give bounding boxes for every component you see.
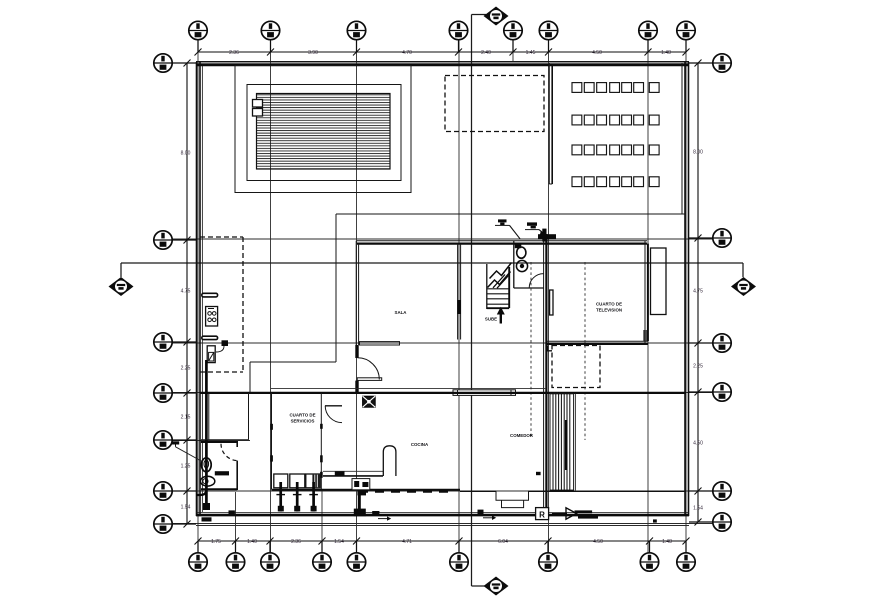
svg-text:2.25: 2.25 [693,364,703,370]
grid bubble top-3 [347,21,365,39]
washer box 3 hatch [312,475,319,488]
east boundary wall [684,62,686,516]
right dim tick y=343 [695,340,702,347]
svg-text:4.70: 4.70 [402,50,412,56]
stair break zigzag 1 [488,272,511,288]
svg-text:1.45: 1.45 [526,50,536,56]
sala west wall jamb [355,345,358,358]
grid bubble right-3 [713,334,731,352]
top dim tick x=513 [510,49,517,56]
svg-text:TELEVISION: TELEVISION [596,308,622,313]
svg-text:2.36: 2.36 [229,50,239,56]
wall cap y=184 [549,183,552,185]
servicio east wall [320,393,322,490]
servicio door arc [325,406,342,423]
west conduit elbow [196,490,206,495]
grid bubble bot-4 [313,553,331,571]
left dim tick y=393 [184,390,191,397]
black mark below bath wall [202,517,212,521]
svg-text:8.00: 8.00 [181,151,191,157]
grid bubble right-4 [713,383,731,401]
bathroom mid door arc [529,274,543,288]
grid bubble left-6 [154,482,172,500]
svg-text:R: R [539,511,545,520]
tv room east wall [644,241,646,344]
closet west wall [208,393,210,440]
dashed overhang top-center [445,76,544,132]
grid bubble top-8 [677,21,695,39]
svg-text:6.04: 6.04 [498,539,508,545]
closet east wall [248,393,250,440]
section marker diamond left [109,277,134,296]
bathroom counter bar [215,471,229,475]
west boundary wall [196,62,198,516]
kitchen shelf lower [202,336,218,339]
west conduit pipe [205,360,208,508]
stair SE east edge [574,394,576,491]
svg-text:4.50: 4.50 [593,539,603,545]
lamp leader 1 [510,225,521,239]
top dim tick x=648 [645,49,652,56]
grid bubble bot-7 [539,553,557,571]
horizontal grid line 2 (y=239) [172,238,713,240]
section marker diamond bottom [484,577,509,596]
bathroom mid sink [516,260,527,271]
porch line y=214 [336,213,686,215]
svg-text:CUARTO DE: CUARTO DE [289,413,315,418]
section cut bottom leg [472,585,487,587]
cocina counter edge [323,470,383,472]
dashed patio mid-right [552,346,600,388]
left dim tick y=491 [184,488,191,495]
right dim tick y=522 [695,519,702,526]
grid bubble right-1 [713,54,731,72]
sube arrow [500,313,502,324]
dashed patio corner bracket [548,346,553,351]
bottom dim tick x=198 [195,538,202,545]
top dim tick x=198 [195,49,202,56]
panel conduit [358,495,361,511]
patio outer rectangle [235,66,411,193]
wall x=250 segment [249,362,251,392]
grid bubble left-7 [154,515,172,533]
svg-text:1.75: 1.75 [211,539,221,545]
bottom dim tick x=649.5 [646,538,653,545]
lamp symbol 1 [498,219,507,222]
vertical grid stub (x=322 bottom) [321,490,323,552]
section marker diamond right [731,277,756,296]
grid bubble left-4 [154,384,172,402]
right dim tick y=238 [695,235,702,242]
bathroom sw south wall [201,488,237,490]
servicio south wall [272,489,461,491]
svg-text:SUBE: SUBE [485,317,497,322]
vertical grid line A (x=198) [197,40,199,552]
svg-text:SERVICIOS: SERVICIOS [291,419,315,424]
drain pipe 1 [279,482,282,512]
tee symbol left [172,441,179,444]
vertical grid line F (x=548) [548,40,550,552]
washer box 2 [290,474,305,488]
top dim tick x=458.5 [455,49,462,56]
top dim tick x=686 [683,49,690,56]
svg-text:CUARTO DE: CUARTO DE [596,302,622,307]
beam bar [453,390,516,396]
projection dashed line x=585 [584,262,586,440]
bathroom mid south wall [514,287,544,289]
cocina peninsula [383,446,396,476]
horizontal grid stub left (y=440.5) [172,440,250,442]
vertical grid line H (x=686) [685,40,687,552]
grid bubble bot-1 [189,553,207,571]
cocina outlet bar [335,471,345,475]
bottom dim tick x=235.5 [232,538,239,545]
walk arrow west [478,510,484,514]
svg-text:4.50: 4.50 [592,50,602,56]
grid bubble bot-8 [640,553,658,571]
tv room door leaf [550,290,553,315]
stair bottom edge [487,307,509,309]
svg-text:COCINA: COCINA [411,442,429,447]
water heater [207,346,215,363]
sala west wall [355,241,357,358]
mid wall thick [200,392,686,394]
stair SE dark rail [565,420,567,470]
dashed overhang west [200,236,243,238]
walk arrow mid [372,511,379,515]
grid bubble bot-3 [261,553,279,571]
grid bubble bot-2 [226,553,244,571]
patio middle rectangle [247,85,401,181]
bottom dim tick x=459 [456,538,463,545]
grid bubble top-4 [449,21,467,39]
vertical grid line C (x=356) [356,40,358,552]
bathroom sw east wall [236,442,238,447]
big arrow [552,513,567,515]
svg-text:2.25: 2.25 [181,366,191,372]
stair SE stripes [553,394,570,491]
junction box center cross [542,229,546,242]
stair break zigzag 2 [490,263,512,279]
bathroom sw toilet [201,458,211,472]
stair right rail [508,267,510,308]
svg-text:8.00: 8.00 [693,150,703,156]
wall x=336 segment [335,214,337,362]
wall y=362 segment [250,361,336,363]
sala door leaf [357,378,382,381]
section marker diamond top [484,7,509,26]
svg-text:2.36: 2.36 [291,539,301,545]
mid wall thin line [271,387,546,389]
grid bubble top-1 [189,21,207,39]
drain pipe 3 [312,482,315,512]
vertical grid line E stub (x=513) [512,40,514,62]
grid bubble right-2 [713,229,731,247]
washer box 1 [274,474,288,488]
tv room closet [651,248,667,315]
horizontal grid line 5 (y=491) [172,490,713,492]
svg-text:1.48: 1.48 [662,539,672,545]
sala door arc [358,358,380,380]
sidewalk line south [196,525,689,527]
top dimension line [198,51,686,53]
wall x=549 upper segment [548,63,550,184]
lamp symbol 2 [527,222,537,225]
comedor south wall [460,490,496,492]
svg-text:COMEDOR: COMEDOR [510,433,534,438]
tiny mark east [653,519,657,522]
left dim tick y=240 [184,237,191,244]
section cut line horizontal (y=263) [121,262,743,264]
svg-text:1.54: 1.54 [181,505,191,511]
section stem left diamond [120,263,122,277]
vertical grid stub (x=235 bottom) [235,492,237,552]
bathroom sw door arc dashed [221,444,238,461]
west conduit blob [203,503,210,510]
drain pipe caps [276,494,318,496]
svg-text:1.40: 1.40 [247,539,257,545]
comedor glass sill dashes [359,490,455,492]
grid bubble top-6 [539,21,557,39]
junction leader [216,346,224,352]
bubble stems [172,40,712,553]
servicio door leaf [325,405,342,407]
comedor west wall [457,244,459,340]
svg-text:4.75: 4.75 [181,289,191,295]
svg-text:2.15: 2.15 [181,415,191,421]
svg-text:1.48: 1.48 [661,50,671,56]
svg-text:3.90: 3.90 [308,50,318,56]
right dim tick y=63 [695,60,702,67]
bathroom mid west wall [513,241,515,288]
right dim tick y=392 [695,389,702,396]
right dim tick y=491 [695,488,702,495]
hatch edge ladder symbol [253,100,263,108]
east inner wall line [681,63,683,214]
stair treads [487,289,509,304]
pergola squares grid [572,83,659,187]
svg-text:1.25: 1.25 [181,464,191,470]
vertical grid line G (x=648) [647,40,649,552]
grid bubble bot-6 [450,553,468,571]
grid bubble left-1 [154,54,172,72]
electrical panel [352,479,370,490]
sala west wall jamb lower [355,381,358,393]
horizontal grid line 3 (y=343) [172,342,713,344]
horizontal grid line 6 (y=523.5) [172,523,713,525]
stair SE bottom [550,489,574,491]
bottom dim tick x=270 [267,538,274,545]
left dim tick y=440 [184,437,191,444]
bottom dim tick x=686 [683,538,690,545]
stair SE frame [550,394,574,491]
black square on south wall [229,510,235,514]
north boundary wall [196,61,689,63]
grid bubble top-7 [639,21,657,39]
projection dashed line x=531 [530,262,532,438]
svg-text:1.54: 1.54 [693,506,703,512]
south boundary wall [196,512,689,514]
kitchen shelf upper [202,293,218,297]
arrow bars [575,510,593,513]
drain pipe 2 [296,482,299,512]
R box [536,508,549,520]
entry step outer [496,491,529,500]
grid bubble left-3 [154,333,172,351]
comedor west wall jamb [457,300,461,314]
svg-text:4.50: 4.50 [693,441,703,447]
bottom dimension line [198,540,686,542]
fan box symbol [363,396,376,407]
panel conduit blob [354,509,366,517]
left dim tick y=524 [184,521,191,528]
svg-text:2.40: 2.40 [481,50,491,56]
top dim tick x=548.5 [545,49,552,56]
bathroom sw north wall [201,441,238,443]
closet south wall [201,439,249,441]
lamp leader 2 [539,230,544,234]
sala south half wall [360,342,400,345]
svg-text:1.54: 1.54 [334,539,344,545]
bottom dim tick x=356.5 [353,538,360,545]
svg-text:4.71: 4.71 [402,539,412,545]
stair break zigzag 3 [493,275,509,289]
left dim tick y=63 [184,60,191,67]
bottom dim tick x=322 [319,538,326,545]
bathroom mid toilet [517,247,526,258]
vertical grid line D (x=459) [458,40,460,552]
grid bubble left-5 [154,431,172,449]
grid bubble top-2 [261,21,279,39]
junction box west [222,340,229,346]
section stem right diamond [742,263,744,277]
rooms north wall [357,240,647,242]
left dim tick y=342 [184,339,191,346]
grid bubble bot-5 [347,553,365,571]
svg-text:SALA: SALA [395,310,408,315]
grid bubble top-5 [504,21,522,39]
bathroom sw sink [200,476,214,486]
kitchen stove [206,307,218,327]
top dim tick x=356.5 [353,49,360,56]
left dimension line [186,63,188,524]
top dim tick x=270.5 [267,49,274,56]
right dimension line [697,63,699,522]
horizontal grid line 4 (y=392.5) [172,392,713,394]
tv room corner jog [643,330,645,341]
grid bubble right-6 [713,513,731,531]
black mark west of wall [536,472,541,475]
horizontal grid line 1 (y=63) [172,62,713,64]
servicio west wall [271,393,273,490]
stair left rail [486,264,488,309]
entry step inner [502,500,524,507]
panel drop [357,490,366,495]
section cut line top leg [472,14,487,16]
central wall [543,234,545,513]
west wall inner line [201,66,203,512]
grid bubble bot-9 [677,553,695,571]
section cut line vertical (x=471.5) [471,15,473,587]
grid bubble right-5 [713,482,731,500]
tv room south wall [546,340,648,342]
bottom dim tick x=548 [545,538,552,545]
washer box 3 [306,474,320,488]
svg-text:4.75: 4.75 [693,289,703,295]
grid bubble left-2 [154,231,172,249]
vertical grid line B (x=270) [270,40,272,552]
